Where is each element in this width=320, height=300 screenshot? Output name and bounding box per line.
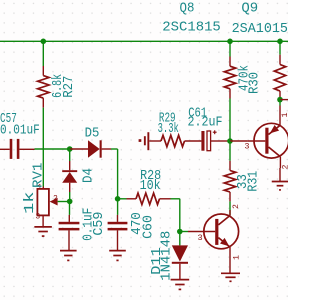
- node F junction: [277, 97, 283, 103]
- pin 2 Q8: [232, 204, 241, 209]
- wire D5 to column B: [111, 149, 118, 199]
- pin 3 Q9: [244, 141, 249, 151]
- label D4 ref: [82, 168, 97, 183]
- transistor Q9: [247, 106, 288, 169]
- wire node F to right edge: [280, 99, 288, 101]
- wire node F to Q9 emitter: [279, 100, 281, 106]
- resistor R27: [38, 66, 49, 108]
- capacitor C60: [108, 199, 128, 250]
- label C61 ref: [188, 107, 207, 122]
- svg-text:D5: D5: [85, 127, 100, 142]
- pin 1 RV1: [37, 183, 42, 192]
- label R29 value 3.3k: [158, 122, 179, 137]
- node B junction: [115, 196, 121, 202]
- label R29 ref: [159, 112, 176, 127]
- wire Q9 collector down: [279, 168, 281, 182]
- capacitor C58 unconnected: [139, 132, 161, 150]
- svg-text:3: 3: [244, 141, 249, 151]
- wire wiper to node C: [58, 201, 70, 203]
- pin 2 RV1: [53, 195, 58, 204]
- ground below Q9: [272, 182, 289, 190]
- ground below C60: [109, 251, 126, 261]
- svg-text:2SA1015: 2SA1015: [232, 22, 288, 37]
- ground below C59: [60, 251, 77, 261]
- svg-text:C60: C60: [141, 215, 156, 239]
- svg-text:1: 1: [232, 255, 241, 260]
- svg-text:0.01uF: 0.01uF: [0, 124, 40, 139]
- label R27 value 6.8k: [51, 74, 66, 98]
- svg-text:1: 1: [281, 112, 288, 117]
- svg-text:C59: C59: [92, 212, 107, 236]
- label C59 ref: [92, 212, 107, 236]
- svg-text:3.3k: 3.3k: [158, 122, 179, 137]
- wire node E to R31: [229, 141, 231, 161]
- ground below RV1: [34, 227, 52, 236]
- label C60 ref: [141, 215, 156, 239]
- wire top horizontal power rail: [0, 40, 288, 42]
- resistor R32: [274, 55, 285, 100]
- label Q8 ref: [180, 2, 195, 17]
- svg-text:D4: D4: [82, 168, 97, 183]
- wire C61 to node E: [221, 140, 231, 142]
- wire node B to R28: [118, 198, 127, 200]
- label RV1 value 1k: [23, 192, 38, 215]
- transistor Q8: [188, 210, 239, 273]
- label Q9 ref: [241, 2, 258, 17]
- label R31 ref: [246, 171, 261, 192]
- pin 2 Q9: [282, 164, 291, 169]
- resistor R28: [127, 193, 171, 204]
- label R30 value 470k: [238, 65, 253, 91]
- label Q8 value 2SC1815: [162, 20, 221, 35]
- label R27 ref: [62, 76, 77, 98]
- svg-text:2: 2: [53, 195, 58, 204]
- wire D4 to node C: [69, 192, 71, 201]
- wire R27 to RV1: [42, 108, 44, 187]
- svg-text:2: 2: [232, 204, 241, 209]
- resistor R29: [161, 135, 201, 146]
- svg-text:2: 2: [282, 164, 289, 169]
- svg-text:Q8: Q8: [180, 2, 195, 17]
- pin 1 Q9: [281, 112, 290, 117]
- diode D11: [172, 232, 188, 280]
- diode D5: [70, 140, 111, 157]
- svg-text:1k: 1k: [23, 192, 38, 215]
- node C junction wiper: [67, 199, 73, 205]
- node D junction: [177, 229, 183, 235]
- node junction J3 on rail: [277, 39, 283, 45]
- capacitor C57: [0, 139, 35, 159]
- wire R31 to Q8 collector: [229, 201, 231, 215]
- resistor R31: [224, 161, 235, 202]
- wire node D to Q8 base: [180, 231, 188, 233]
- label R28 ref: [140, 169, 161, 184]
- label C61 value 2.2uF: [188, 116, 223, 131]
- label RV1 ref: [32, 163, 47, 189]
- label Q9 value 2SA1015: [232, 22, 288, 37]
- svg-text:R30: R30: [248, 72, 263, 94]
- wire rail to R27: [42, 41, 44, 66]
- wire node E to Q9 base: [230, 140, 247, 142]
- wire R28 to node D: [171, 199, 180, 232]
- pin 3 RV1: [35, 212, 40, 221]
- label R28 value 10k: [140, 179, 161, 194]
- wire R30 to node E: [229, 99, 231, 142]
- svg-text:2SC1815: 2SC1815: [162, 20, 221, 35]
- node E junction: [227, 138, 233, 144]
- capacitor C61: [201, 130, 220, 150]
- node junction J1 on rail: [41, 39, 47, 45]
- svg-text:1N4148: 1N4148: [160, 231, 175, 281]
- svg-text:Q9: Q9: [241, 2, 258, 17]
- ground below D11: [171, 280, 190, 290]
- svg-text:RV1: RV1: [32, 163, 47, 189]
- label C57 value 0.01uF: [0, 124, 40, 139]
- wire rail to right resistor: [279, 41, 281, 54]
- label D11 ref: [150, 247, 165, 275]
- label D5 ref: [85, 127, 100, 142]
- label R31 value 33: [236, 174, 251, 189]
- capacitor C59: [59, 201, 80, 250]
- label D11 value 1N4148: [160, 231, 175, 281]
- svg-text:10k: 10k: [140, 179, 161, 194]
- label R30 ref: [248, 72, 263, 94]
- svg-text:R27: R27: [62, 76, 77, 98]
- wire rail to R30: [229, 41, 231, 56]
- ground below Q8: [221, 273, 240, 281]
- svg-text:3: 3: [198, 233, 203, 243]
- svg-text:R31: R31: [246, 171, 261, 192]
- pin 3 Q8: [198, 233, 203, 243]
- node A junction: [67, 146, 73, 152]
- wire C57 to node A: [35, 148, 70, 150]
- pin 1 Q8: [232, 255, 241, 260]
- label C59 value 0.1uF: [82, 208, 97, 241]
- node junction J2 on rail: [227, 39, 233, 45]
- diode D4: [62, 149, 77, 192]
- label C60 value 470: [130, 212, 145, 235]
- resistor R30: [224, 57, 235, 99]
- potentiometer RV1: [37, 187, 57, 227]
- svg-text:2.2uF: 2.2uF: [188, 116, 223, 131]
- label C57 ref: [0, 112, 17, 127]
